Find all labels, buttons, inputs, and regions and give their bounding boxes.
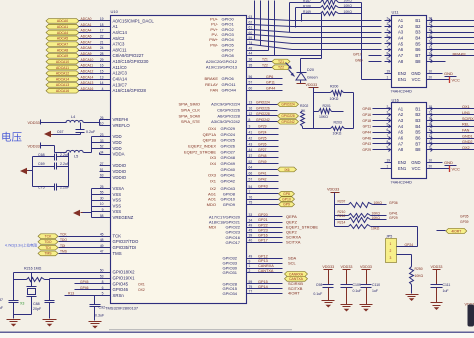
svg-text:1uF: 1uF	[372, 289, 378, 293]
U11 pin B5	[415, 40, 432, 47]
net label TMS	[38, 251, 58, 256]
svg-text:QEP2: QEP2	[286, 230, 297, 235]
svg-text:VDD33: VDD33	[431, 265, 443, 269]
U10 pin GPIO7	[222, 46, 253, 52]
svg-text:EN2: EN2	[398, 71, 407, 76]
wire riser	[259, 1, 262, 46]
svg-text:SCITXA: SCITXA	[286, 240, 301, 245]
svg-text:GPIO6: GPIO6	[222, 76, 235, 81]
svg-text:A2: A2	[398, 112, 404, 117]
capacitor partial at edge	[0, 298, 3, 310]
U10 pin name A11/C0	[113, 65, 128, 70]
U10 pin GPIO30	[223, 264, 283, 270]
svg-text:GPIO8: GPIO8	[222, 53, 235, 58]
U10 pin VSS	[100, 208, 122, 214]
net label ADCA0	[46, 19, 79, 24]
svg-text:4: 4	[387, 116, 389, 120]
svg-text:15: 15	[100, 69, 104, 73]
ground	[44, 131, 53, 137]
U16 pin B2	[415, 111, 432, 118]
U11 pin B2	[415, 22, 432, 29]
ground	[406, 295, 419, 302]
svg-text:PU+: PU+	[210, 16, 219, 21]
U10 pin GPIO4	[209, 36, 252, 42]
net label ADCA8	[46, 48, 79, 53]
capacitor C110 1uF	[361, 283, 381, 305]
svg-text:GP43: GP43	[258, 185, 268, 189]
svg-text:74AHC244D: 74AHC244D	[391, 90, 413, 94]
svg-text:GPIO5: GPIO5	[222, 42, 235, 47]
U11 pin B6	[415, 46, 432, 53]
svg-text:VSS: VSS	[113, 203, 122, 208]
U10 pin GPIO23	[226, 228, 298, 234]
inductor L4	[66, 115, 83, 122]
power VDD33	[341, 265, 353, 285]
svg-text:GPIO32: GPIO32	[223, 256, 238, 261]
svg-text:47: 47	[100, 250, 104, 254]
svg-text:GPIO2: GPIO2	[222, 27, 235, 32]
U10 pin name C4/A14	[113, 77, 128, 82]
svg-text:GP10: GP10	[282, 197, 291, 201]
svg-text:TMS: TMS	[113, 251, 122, 256]
U10 pin A3/C5/GPIO242	[181, 118, 278, 124]
capacitor C109 0.1uF	[341, 283, 362, 305]
svg-text:A7: A7	[398, 141, 404, 146]
svg-text:GP16: GP16	[258, 234, 268, 238]
svg-text:GP36: GP36	[389, 201, 398, 205]
U10 pin VDDIO	[100, 162, 127, 168]
svg-text:GP27: GP27	[258, 148, 267, 152]
wire ADCA11 to U10 pin 16	[79, 64, 111, 68]
svg-text:GPIO224: GPIO224	[256, 101, 270, 105]
U16 pin B3	[415, 116, 432, 123]
svg-text:B6: B6	[415, 47, 421, 52]
svg-text:TZ2: TZ2	[262, 63, 268, 67]
net label ADCA16	[46, 88, 79, 93]
ground	[322, 301, 335, 308]
U16 pin B6	[415, 134, 432, 141]
svg-text:VCC: VCC	[452, 78, 461, 83]
U10 pin VDDIO	[100, 168, 127, 174]
U10 pin GPIO27	[184, 148, 279, 154]
svg-text:VREFHI: VREFHI	[113, 117, 129, 122]
wire ADCA4 to U10 pin 17	[79, 29, 111, 33]
ground	[43, 320, 57, 327]
svg-text:GPIO48: GPIO48	[221, 155, 236, 160]
svg-text:45: 45	[249, 229, 253, 233]
svg-text:ADCA5: ADCA5	[57, 37, 68, 41]
svg-text:IX1: IX1	[210, 179, 217, 184]
svg-text:A1: A1	[398, 106, 404, 111]
U10 pin GPIO19/X1	[50, 274, 136, 280]
svg-text:B8: B8	[415, 147, 421, 152]
U10 pin name C8/A9/GPIO227	[113, 53, 145, 58]
svg-text:17: 17	[429, 22, 433, 26]
svg-text:GP25: GP25	[258, 136, 267, 140]
U10 pin GPIO42	[210, 177, 279, 183]
svg-text:PV-: PV-	[212, 32, 219, 37]
svg-text:B8: B8	[415, 59, 421, 64]
svg-text:11: 11	[429, 57, 433, 61]
svg-text:50: 50	[100, 269, 104, 273]
svg-text:EN2: EN2	[398, 160, 407, 165]
svg-text:A8/C11: A8/C11	[113, 47, 128, 52]
svg-text:2: 2	[387, 105, 389, 109]
svg-text:GP44: GP44	[362, 130, 371, 134]
svg-text:GPIO19/X1: GPIO19/X1	[113, 276, 136, 281]
svg-text:GND2: GND2	[462, 140, 473, 144]
svg-text:GPIO7: GPIO7	[222, 48, 235, 53]
svg-text:5: 5	[102, 292, 104, 296]
svg-text:GP42: GP42	[258, 177, 267, 181]
ground	[20, 168, 29, 174]
U10 pin GPIO43	[210, 185, 279, 191]
svg-text:RELAY: RELAY	[205, 82, 218, 87]
svg-text:GP49: GP49	[258, 160, 267, 164]
svg-text:C69: C69	[38, 162, 45, 166]
svg-text:GPIO44: GPIO44	[222, 88, 237, 93]
wire GPIO3 to U11 A4	[246, 35, 382, 38]
svg-text:VDD33: VDD33	[28, 144, 40, 148]
wire U11 GND	[433, 71, 457, 76]
wire U16 B7 out GND2	[433, 140, 474, 144]
svg-text:GP23: GP23	[258, 228, 268, 232]
U10 pin GPIO46	[75, 286, 145, 292]
svg-text:49: 49	[249, 223, 253, 227]
op-amp U10 MCU TMS320F2800137 body	[105, 9, 247, 310]
power VDD33	[327, 187, 340, 226]
svg-text:30: 30	[100, 196, 104, 200]
svg-text:0.1uF: 0.1uF	[353, 289, 362, 293]
svg-text:GP43: GP43	[362, 142, 371, 146]
svg-text:OX4: OX4	[208, 126, 217, 131]
ground	[360, 305, 373, 312]
svg-text:GP46: GP46	[362, 136, 371, 140]
svg-text:A1: A1	[398, 18, 404, 23]
U10 pin name A16/C16/GPIO28	[113, 88, 147, 93]
svg-text:13: 13	[429, 46, 433, 50]
svg-text:B3: B3	[415, 30, 421, 35]
svg-text:EN1: EN1	[398, 77, 407, 82]
svg-text:16: 16	[100, 64, 104, 68]
U10 pin name A1	[113, 24, 119, 29]
svg-text:5: 5	[387, 34, 389, 38]
U10 pin name A5/C2	[113, 36, 126, 41]
svg-text:A2/C9/GPIO224: A2/C9/GPIO224	[211, 102, 241, 107]
net label TDI	[38, 245, 58, 250]
wire L5 to VDD pins	[84, 137, 111, 155]
svg-text:L4: L4	[71, 115, 75, 119]
svg-text:EN1: EN1	[398, 166, 407, 171]
wire ADCA7 to U10 pin 21	[79, 40, 111, 44]
net label 4IORT	[437, 228, 467, 233]
capacitor C111 1uF	[431, 283, 451, 303]
U11 pin B3	[415, 28, 432, 35]
svg-text:Green: Green	[307, 75, 318, 79]
net label ADCA7	[46, 42, 79, 47]
U10 pin GPIO10	[208, 195, 279, 201]
U16 pin A6	[362, 134, 403, 141]
svg-text:GP14: GP14	[258, 285, 268, 289]
svg-text:TDI: TDI	[60, 244, 65, 248]
U10 pin A20/C20/GPIO12	[206, 58, 273, 64]
U10 pin GPIO8	[208, 190, 279, 196]
svg-text:AG1: AG1	[208, 191, 217, 196]
svg-text:BRAKE: BRAKE	[453, 51, 467, 56]
svg-text:GND1: GND1	[462, 134, 473, 138]
svg-text:GPIO35/TDI: GPIO35/TDI	[113, 245, 137, 250]
connector JP5	[386, 235, 397, 263]
svg-text:3: 3	[390, 256, 392, 260]
U11 pin B7	[415, 51, 432, 58]
svg-text:SCIRX: SCIRX	[462, 117, 474, 121]
svg-text:34: 34	[100, 150, 104, 154]
wire U16 B8 out OX2	[433, 146, 474, 150]
svg-text:GND: GND	[411, 71, 420, 76]
wire riser	[267, 1, 270, 51]
svg-text:GP6: GP6	[266, 75, 273, 79]
svg-text:4: 4	[102, 87, 104, 91]
svg-text:GP9: GP9	[283, 203, 290, 207]
U16 pin EN2	[385, 159, 407, 166]
svg-text:GPIO17: GPIO17	[226, 240, 241, 245]
note voltage annotation	[1, 131, 22, 144]
svg-text:VDD: VDD	[113, 134, 122, 139]
svg-text:13: 13	[100, 75, 104, 79]
wire GPIO4 to U11 A5	[246, 40, 382, 44]
wire A8 stub	[369, 60, 382, 63]
wire GPIO7 stub	[247, 49, 269, 52]
svg-text:GP41: GP41	[389, 212, 398, 216]
svg-text:8: 8	[387, 140, 389, 144]
svg-text:R13: R13	[68, 292, 74, 296]
svg-text:4IORT: 4IORT	[451, 229, 461, 233]
U11 pin A6	[385, 46, 404, 53]
U11 pin A8	[385, 57, 404, 64]
U10 pin GPIO32	[223, 254, 297, 260]
svg-text:20: 20	[429, 165, 433, 169]
svg-text:GP29: GP29	[362, 148, 371, 152]
svg-text:VSSA: VSSA	[113, 186, 125, 191]
svg-text:10: 10	[429, 70, 433, 74]
svg-text:10KΩ: 10KΩ	[415, 274, 424, 278]
svg-text:ADCA4: ADCA4	[81, 29, 92, 33]
U16 pin B7	[415, 140, 432, 147]
svg-text:ADCA13: ADCA13	[81, 81, 94, 85]
svg-text:GPIO242: GPIO242	[281, 120, 295, 124]
net label TZ2	[272, 65, 290, 70]
resistor R212 10K	[335, 214, 398, 222]
svg-text:uF: uF	[0, 306, 3, 310]
svg-text:41: 41	[249, 131, 253, 135]
U10 pin GPIO41	[208, 172, 279, 178]
svg-text:GP35: GP35	[460, 215, 469, 219]
svg-text:GP20: GP20	[258, 213, 268, 217]
svg-text:VDDIO: VDDIO	[113, 169, 127, 174]
svg-text:GPIO3: GPIO3	[222, 32, 235, 37]
svg-text:A5: A5	[398, 41, 404, 46]
svg-text:GPIO28: GPIO28	[223, 281, 238, 286]
U10 pin A17/C17/GPIO20	[209, 213, 297, 219]
svg-text:VDDA: VDDA	[113, 152, 125, 157]
svg-text:JP5: JP5	[386, 235, 392, 239]
net label partial	[460, 215, 469, 225]
capacitor C88 20pF	[33, 279, 55, 319]
svg-text:GPIO26: GPIO26	[221, 143, 236, 148]
capacitor C98 0.1uF	[313, 283, 333, 301]
svg-text:GP11: GP11	[363, 125, 372, 129]
wire L4 to VREFHI	[84, 120, 111, 126]
svg-text:MDI: MDI	[209, 225, 216, 230]
svg-text:10KΩ: 10KΩ	[344, 4, 353, 8]
power VDD33	[28, 143, 41, 149]
wire U16 B4 out REL	[433, 123, 474, 127]
svg-text:GP29: GP29	[389, 216, 398, 220]
svg-text:GP13: GP13	[258, 259, 268, 263]
svg-text:42: 42	[249, 136, 253, 140]
svg-text:OX1: OX1	[138, 282, 145, 286]
svg-text:C67: C67	[57, 130, 64, 134]
svg-text:SCIRXA: SCIRXA	[286, 235, 301, 240]
svg-text:ADCA4: ADCA4	[57, 31, 68, 35]
svg-text:PU-: PU-	[211, 22, 219, 27]
U16 pin A5	[362, 128, 403, 135]
svg-text:电压: 电压	[1, 131, 22, 144]
U10 pin A19/C19/GPIO13	[206, 63, 273, 69]
svg-text:OX2: OX2	[138, 288, 145, 292]
svg-text:5: 5	[387, 122, 389, 126]
wire U16 B1 out OX1	[433, 105, 474, 109]
svg-text:3: 3	[387, 111, 389, 115]
net label ADCA5	[46, 36, 79, 41]
svg-text:GPIO228: GPIO228	[281, 114, 295, 118]
svg-text:U10: U10	[111, 9, 119, 14]
power VDD33	[322, 265, 334, 285]
net label GP40	[278, 167, 297, 172]
wire U11 A7 stub	[369, 54, 382, 57]
svg-text:CANTXA: CANTXA	[258, 269, 274, 273]
wire VDD33 rail	[306, 83, 319, 128]
svg-text:GP45: GP45	[362, 107, 371, 111]
svg-text:16: 16	[429, 116, 433, 120]
svg-text:4IORT: 4IORT	[288, 291, 300, 296]
svg-text:R250: R250	[415, 267, 423, 271]
svg-text:62: 62	[249, 20, 253, 24]
svg-text:GPIO15: GPIO15	[223, 286, 238, 291]
svg-text:IX2: IX2	[210, 186, 217, 191]
svg-text:16: 16	[429, 28, 433, 32]
svg-text:16: 16	[249, 106, 253, 110]
svg-text:ADCA11: ADCA11	[81, 64, 94, 68]
svg-text:7: 7	[387, 46, 389, 50]
ground	[89, 322, 102, 329]
svg-text:VSS: VSS	[113, 209, 122, 214]
U10 pin GPIO44	[210, 86, 282, 92]
svg-text:A6: A6	[398, 47, 404, 52]
svg-text:ADCA13: ADCA13	[56, 83, 69, 87]
svg-text:GPIO22: GPIO22	[226, 225, 241, 230]
U16 pin A2	[362, 111, 403, 118]
svg-text:24: 24	[100, 46, 104, 50]
svg-text:GPIO242: GPIO242	[256, 118, 270, 122]
svg-text:21: 21	[100, 40, 104, 44]
svg-text:GPIO9: GPIO9	[223, 202, 236, 207]
svg-text:10: 10	[429, 159, 433, 163]
svg-text:A8: A8	[398, 59, 404, 64]
U10 pin GPIO11	[205, 81, 282, 87]
svg-text:15: 15	[429, 34, 433, 38]
svg-text:ADCA0: ADCA0	[81, 17, 92, 21]
svg-text:OX2: OX2	[462, 146, 470, 150]
svg-text:27: 27	[100, 162, 104, 166]
svg-text:9: 9	[249, 259, 251, 263]
svg-text:GP24: GP24	[258, 131, 267, 135]
U16 pin B4	[415, 122, 432, 129]
U10 pin GPIO1	[211, 20, 252, 26]
op-amp U16 74AHC244D body	[391, 97, 427, 184]
svg-text:SCIRXB: SCIRXB	[288, 281, 303, 286]
svg-text:GP16: GP16	[362, 113, 371, 117]
svg-text:U16: U16	[392, 97, 400, 102]
svg-text:GPIO46: GPIO46	[113, 287, 129, 292]
svg-text:L5: L5	[74, 155, 78, 159]
wire cap rails	[29, 153, 69, 187]
net label CANRXA	[285, 272, 308, 277]
resistor R207 10K	[335, 199, 398, 207]
svg-text:X3: X3	[20, 301, 24, 305]
svg-text:43: 43	[249, 142, 253, 146]
svg-text:ADCA9: ADCA9	[57, 54, 68, 58]
svg-text:11: 11	[429, 146, 433, 150]
capacitor C92 0.3uF	[90, 296, 106, 321]
svg-text:ADCA1: ADCA1	[57, 25, 68, 29]
svg-text:GPIO31: GPIO31	[223, 270, 238, 275]
U10 pin name A8/C11	[113, 47, 128, 52]
U10 pin VDDA	[100, 150, 125, 156]
svg-text:B3: B3	[415, 118, 421, 123]
svg-text:GPIO16: GPIO16	[226, 235, 241, 240]
net label ADCA1	[46, 24, 79, 29]
op-amp U11 74AHC244D body	[391, 10, 427, 94]
U16 pin VCC	[412, 165, 433, 172]
wire ADCA16 to U10 pin 4	[79, 87, 111, 91]
svg-text:R210: R210	[338, 210, 346, 214]
U11 pin A4	[385, 34, 404, 41]
svg-text:ADCA16: ADCA16	[56, 89, 69, 93]
svg-text:GP39: GP39	[460, 220, 469, 224]
svg-text:A18/C18/GPIO21: A18/C18/GPIO21	[209, 220, 241, 225]
U10 pin GPIO22	[209, 223, 319, 229]
U10 pin VSSA	[100, 185, 125, 191]
wire GPIO2 to U11 A3	[246, 30, 382, 33]
svg-text:SPIA_SIMO: SPIA_SIMO	[178, 102, 200, 107]
svg-text:A17/C17/GPIO20: A17/C17/GPIO20	[209, 214, 241, 219]
wire TCK	[59, 232, 122, 238]
U11 pin A1	[385, 16, 404, 23]
svg-text:A19/C19/GPIO13: A19/C19/GPIO13	[206, 65, 238, 70]
svg-text:GP41: GP41	[258, 172, 267, 176]
wire U11 B8 stub	[433, 60, 446, 63]
cursor mark	[468, 305, 474, 327]
U16 pin B8	[415, 146, 432, 153]
svg-text:GPIO228: GPIO228	[256, 112, 270, 116]
svg-text:VDD: VDD	[113, 140, 122, 145]
resistor R203 10K	[303, 93, 354, 136]
capacitor C75 2.2uF	[33, 184, 70, 191]
U10 pin VSS	[100, 196, 122, 202]
svg-text:PV+: PV+	[210, 27, 218, 32]
wire JP5 pin3 to R250	[397, 255, 412, 267]
